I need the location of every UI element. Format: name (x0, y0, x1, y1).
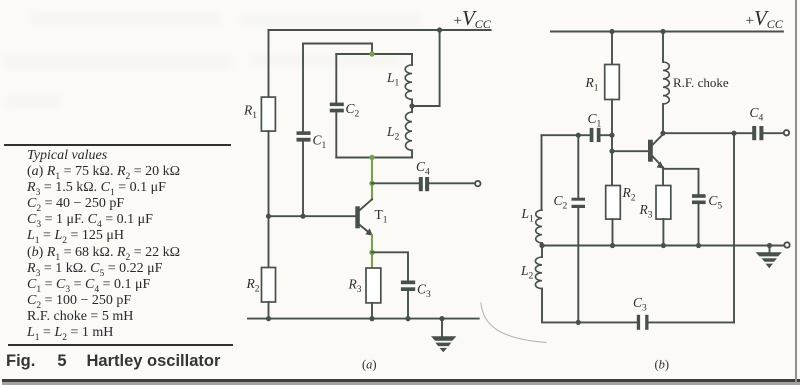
wire: L1 branch top (b) (541, 135, 543, 210)
typical values top rule (4, 144, 231, 146)
wire: C3 bottom to rail (407, 291, 409, 319)
capacitor C2 (b) plates (572, 198, 586, 201)
wire: R2 bottom to rail (268, 302, 270, 319)
wire: collector green vertical (371, 158, 373, 200)
inductor L2 (a) (406, 112, 412, 150)
svg-text:L1: L1 (521, 206, 535, 225)
wire: mid rail (b) (542, 245, 784, 247)
resistor R1 (a) (261, 97, 275, 131)
svg-text:L2: L2 (386, 124, 400, 143)
transistor T (b): emitter diagonal (653, 157, 663, 168)
node: L1/L2 tap (b) (539, 243, 544, 248)
capacitor C1 (b) plates (590, 128, 594, 142)
node: R2 bottom (266, 316, 271, 321)
transistor T (b): collector diagonal (653, 134, 663, 144)
resistor R3 (a) (366, 268, 381, 303)
node: tank bottom (green) (369, 155, 374, 160)
wire: C1 branch vertical upper (302, 44, 304, 132)
svg-text:R2: R2 (622, 185, 636, 204)
wire: +Vcc top rail (b) (551, 31, 783, 33)
node: C2 top junction (b) (576, 133, 581, 138)
wire: C3 to right riser (b) (649, 321, 735, 323)
node: C2 bottom on C3 wire (b) (576, 320, 581, 325)
wire: base node down to R2 (268, 216, 270, 267)
node: emitter junction (green) (369, 250, 374, 255)
node: choke rail junction (b) (660, 29, 665, 34)
node: R1 rail junction (b) (609, 29, 614, 34)
inductor L1 (b) (536, 210, 542, 243)
wire: R1 (b) feed (611, 32, 613, 65)
wire: C1 bottom to base wire (302, 142, 304, 217)
wire: tap to L2 (b) (541, 246, 543, 258)
wire: tank left edge lower (335, 112, 337, 157)
terminal: mid rail end circle (b) (784, 242, 789, 247)
node: tank top (green) (369, 51, 374, 56)
inductor L2 (b) (535, 257, 542, 289)
figure caption (6, 352, 220, 371)
wire: C5 bottom to mid rail (b) (698, 204, 700, 245)
resistor R1 (b) (605, 65, 620, 100)
wire: C1 branch top horizontal (303, 44, 372, 55)
typical values bottom rule (8, 344, 233, 346)
wire: L2 to tank bottom (411, 150, 413, 157)
wire: C2 branch (b) (577, 135, 579, 198)
wire: C4 (b) to output (763, 132, 783, 134)
wire: choke bottom to collector node (662, 104, 664, 133)
wire: tank top edge (336, 53, 412, 55)
capacitor C2 (a) plates (330, 103, 344, 107)
wire: L2 bottom corner (b) (542, 289, 637, 323)
wire: R1 bottom to base node (268, 131, 270, 216)
svg-text:C4: C4 (416, 159, 430, 178)
wire: R2 (b) bottom to mid rail (612, 219, 614, 245)
wire: right riser to C4 node (b) (733, 133, 735, 322)
svg-text:C2: C2 (554, 193, 568, 212)
ground (b) (769, 246, 771, 253)
wire: down to base node (b) (611, 135, 613, 151)
faint bleed-through ghosts from reverse page (30, 12, 220, 26)
svg-text:R3: R3 (639, 202, 653, 221)
wire: base horizontal (b) (612, 150, 648, 152)
wire: bottom rail (a) (248, 318, 479, 320)
resistor R2 (a) (262, 268, 276, 303)
inductor RF choke (b) (663, 62, 669, 104)
wire: C4 feed from collector (372, 182, 419, 184)
transistor T1 (a): base bar (355, 206, 360, 228)
capacitor C4 (a) plates (419, 177, 423, 191)
svg-text:C3: C3 (633, 295, 647, 314)
node: ground junction (a) (439, 316, 444, 321)
svg-text:C5: C5 (708, 193, 722, 212)
wire: down to R2 (b) (611, 151, 613, 185)
wire: L1 to tap (b) (541, 243, 543, 246)
wire: emitter green vertical (371, 235, 373, 268)
wire: C2 bottom branch crossing mid rail (b) (577, 208, 579, 322)
scan border bottom (2, 379, 800, 382)
capacitor C4 (b) plates (752, 126, 756, 140)
node: C4 branch junction (b) (731, 131, 736, 136)
wire: tank left edge upper (335, 54, 337, 103)
scan border right (795, 0, 797, 382)
capacitor C5 (b) plates (692, 194, 706, 198)
wire: emitter junction to R3/C5 (b) (662, 168, 664, 186)
transistor T1 (a): emitter diagonal (360, 225, 372, 235)
node: base junction (b) (609, 149, 614, 154)
node: L1/L2 tap (409, 103, 414, 108)
svg-text:+VCC: +VCC (746, 6, 784, 31)
node: C1/base junction (300, 214, 305, 219)
node: R3 bottom (369, 316, 374, 321)
terminal: output (b) (784, 130, 789, 135)
typical values text panel (27, 148, 180, 341)
page curl arc (481, 303, 546, 343)
svg-text:L2: L2 (520, 263, 534, 282)
wire: L1 to tap (411, 99, 413, 112)
node: R2 bottom (b) (610, 243, 615, 248)
node: ground junction (b) (767, 243, 772, 248)
transistor T (b): emitter arrowhead (657, 161, 664, 168)
node: C1/R1 junction (b) (609, 133, 614, 138)
node: C4 tap (green) (369, 181, 374, 186)
transistor T1 (a): collector diagonal (360, 199, 372, 210)
svg-text:C1: C1 (313, 133, 327, 152)
capacitor C1 (a) plates (297, 131, 311, 135)
node: C5 bottom (b) (696, 243, 701, 248)
svg-text:C2: C2 (346, 101, 360, 120)
wire: R3 bottom to rail (371, 303, 373, 319)
resistor R2 (b) (606, 186, 621, 220)
svg-text:(a): (a) (362, 358, 377, 372)
wire: tank bottom edge (336, 157, 412, 159)
svg-text:R3: R3 (348, 277, 362, 296)
svg-text:R.F. choke: R.F. choke (673, 75, 729, 90)
transistor T (b): base bar (648, 140, 653, 162)
svg-text:+VCC: +VCC (454, 6, 492, 31)
terminal: output (a) (475, 181, 480, 186)
node: R3 bottom (b) (661, 243, 666, 248)
node: C3 bottom (405, 316, 410, 321)
node: collector junction (b) (660, 131, 665, 136)
svg-text:R2: R2 (246, 276, 260, 295)
transistor T1 (a): emitter arrowhead (365, 228, 372, 236)
wire: +Vcc top rail (a) (269, 29, 491, 31)
wire: tap to Vcc rail (412, 30, 440, 106)
wire: R1 (b) bottom to C1 node (611, 100, 613, 136)
wire: emitter to C3 (372, 252, 408, 280)
resistor R3 (b) (656, 186, 671, 220)
svg-text:(b): (b) (655, 358, 670, 372)
svg-text:T1: T1 (375, 207, 388, 226)
inductor L1 (a) (405, 65, 412, 99)
svg-text:C1: C1 (588, 111, 602, 130)
ground (a) (441, 319, 443, 337)
capacitor C3 (b) plates (637, 315, 640, 330)
wire: tank right top stub (411, 54, 413, 65)
wire: C4 to output (429, 182, 474, 184)
svg-text:C3: C3 (417, 282, 431, 301)
wire: R1 top feed (268, 30, 270, 97)
svg-text:C4: C4 (750, 105, 764, 124)
capacitor C3 (a) plates (401, 281, 415, 285)
wire: base horizontal (269, 215, 356, 217)
wire: C1 (b) horizontal from L1 top corner (542, 134, 590, 136)
svg-text:R1: R1 (585, 75, 599, 94)
node: R1/R2/base junction (266, 214, 271, 219)
svg-text:R1: R1 (243, 103, 257, 122)
wire: choke feed (b) (662, 32, 664, 63)
svg-text:L1: L1 (386, 70, 400, 89)
wire: R3 bottom to mid rail (b) (662, 219, 664, 245)
wire: collector to C4 (b) (663, 132, 752, 134)
wire: C1 (b) right plate to R1 node (601, 134, 613, 136)
node: rail junction (a) (437, 27, 442, 32)
